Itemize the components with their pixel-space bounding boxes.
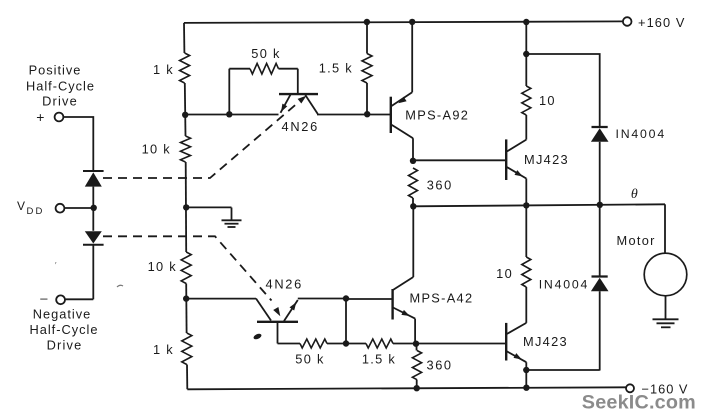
label 50 k upper <box>251 46 280 61</box>
label MPS-A42 <box>410 291 474 306</box>
label 360 lower <box>427 357 453 372</box>
label Negative <box>33 306 92 321</box>
wire 360 lower bottom <box>416 380 418 389</box>
node junction 1.5k bottom <box>364 111 370 117</box>
dashed light path upper (LED D1 to U1) <box>103 96 307 178</box>
node junction Q1 emitter top rail <box>409 19 415 25</box>
label 4N26 upper <box>282 119 319 134</box>
wire left column bottom <box>186 365 188 390</box>
svg-text:+160 V: +160 V <box>638 15 686 30</box>
label IN4004 lower <box>539 277 589 291</box>
wire base rail upper <box>185 114 278 116</box>
terminal plus input <box>55 113 64 122</box>
svg-text:Motor: Motor <box>617 233 656 248</box>
LED D2 optocoupler (lower) <box>83 231 104 299</box>
svg-text:50 k: 50 k <box>251 46 280 61</box>
node junction Q3 emitter theta <box>523 202 529 208</box>
svg-text:IN4004: IN4004 <box>539 277 589 291</box>
wire Q2 base <box>346 298 393 300</box>
LED D1 optocoupler (upper) <box>83 171 104 231</box>
label MJ423 upper <box>524 152 569 167</box>
wire U2 base stub <box>277 322 279 344</box>
wire Q4 emitter to D4 <box>526 369 599 371</box>
resistor R 1.5k lower <box>346 339 415 348</box>
label 1.5 k upper <box>319 60 353 75</box>
wire 1.5k column bottom <box>366 83 368 115</box>
svg-text:10: 10 <box>539 93 556 108</box>
svg-text:Positive: Positive <box>29 63 82 78</box>
wire left column seg4 <box>185 284 187 334</box>
wire 360 to theta node <box>412 198 414 206</box>
diode D3 1N4004 (upper) <box>591 127 609 205</box>
wire motor to ground <box>665 296 667 319</box>
wire branch to D3 <box>526 54 599 126</box>
svg-text:360: 360 <box>427 357 453 372</box>
label 4N26 lower <box>266 276 303 291</box>
resistor R 1.5k upper <box>362 54 372 84</box>
resistor R 1k upper <box>180 53 190 83</box>
label Drive lower <box>47 337 83 352</box>
svg-text:V: V <box>17 199 25 213</box>
wire plus input <box>64 117 94 171</box>
svg-text:Drive: Drive <box>42 94 78 109</box>
svg-text:–: – <box>40 291 49 306</box>
wire right column to top rail <box>525 22 527 54</box>
label 10 upper <box>539 93 556 108</box>
transistor Q1 MPS-A92 <box>391 22 413 161</box>
artifact mark 1 <box>253 333 263 341</box>
node junction D3 theta <box>597 202 603 208</box>
wire Q1 collector to Q3 base <box>413 159 506 161</box>
wire bottom -160V rail <box>187 387 626 389</box>
wire U1 collector to Q1 base <box>317 114 391 116</box>
label theta <box>631 187 639 202</box>
terminal -160 V <box>626 381 688 396</box>
wire lower base rail left <box>186 298 256 300</box>
wire left column seg3 <box>185 162 188 252</box>
svg-text:10: 10 <box>496 266 513 281</box>
svg-text:4N26: 4N26 <box>282 119 319 134</box>
node junction theta-360 <box>410 203 416 209</box>
label IN4004 upper <box>616 127 666 141</box>
svg-text:MPS-A42: MPS-A42 <box>410 291 474 306</box>
wire 1.5k column top <box>366 22 368 54</box>
label 1 k lower <box>153 342 174 357</box>
node junction Q1 collector <box>410 158 416 164</box>
svg-text:10 k: 10 k <box>148 259 177 274</box>
node junction U2-Q2 base <box>343 295 349 301</box>
label MPS-A92 <box>405 108 469 123</box>
svg-text:MJ423: MJ423 <box>524 152 569 167</box>
transistor Q3 MJ423 (upper) <box>506 115 526 205</box>
wire 50k left stub <box>228 69 230 115</box>
node junction left-lower <box>183 295 189 301</box>
svg-text:′: ′ <box>55 261 58 270</box>
svg-text:4N26: 4N26 <box>266 276 303 291</box>
node junction 50k-left <box>226 111 232 117</box>
wire VDD node to ground <box>186 206 231 208</box>
svg-text:+: + <box>36 109 45 125</box>
svg-text:360: 360 <box>427 177 453 192</box>
resistor R 50k lower <box>278 339 347 348</box>
wire theta to Q2 collector <box>393 206 413 290</box>
dashed light path lower (LED D2 to U2) <box>103 236 280 316</box>
label - polarity <box>40 291 49 306</box>
label 10 k lower <box>148 259 177 274</box>
node junction diode branch upper <box>523 51 529 57</box>
svg-text:1.5 k: 1.5 k <box>362 352 396 367</box>
wire left column seg2 <box>184 83 187 136</box>
wire top +160V rail <box>184 21 623 23</box>
svg-text:Half-Cycle: Half-Cycle <box>26 79 95 94</box>
watermark SeekIC.com <box>582 392 696 414</box>
label Motor <box>617 233 656 248</box>
node junction VDD <box>91 205 97 211</box>
label MJ423 lower <box>523 334 568 349</box>
label Half-Cycle upper <box>26 79 95 94</box>
wire 10 to +rail branch <box>525 54 527 86</box>
svg-text:DD: DD <box>27 206 45 217</box>
node junction Q4 emitter-D4 <box>523 367 529 373</box>
resistor R 360 lower <box>412 351 421 380</box>
terminal minus input <box>56 295 65 304</box>
resistor R 10 lower <box>522 257 531 287</box>
diode D4 1N4004 (lower) <box>591 205 609 371</box>
svg-text:50 k: 50 k <box>295 352 324 367</box>
wire minus input <box>65 298 93 300</box>
wire VDD to column <box>65 207 94 209</box>
node junction Q2 emitter <box>413 341 419 347</box>
resistor R 360 upper <box>409 168 418 198</box>
motor M <box>644 253 687 296</box>
wire left column top <box>183 23 185 53</box>
opto-transistor U2 4N26 (lower) <box>256 299 298 322</box>
ground (signal common) <box>222 208 242 228</box>
label 10 k upper <box>142 142 171 157</box>
svg-text:MPS-A92: MPS-A92 <box>405 108 469 123</box>
wire U2 emitter to Q2 base <box>298 298 346 300</box>
wire theta to motor <box>664 204 666 253</box>
label 360 upper <box>427 177 453 192</box>
svg-text:IN4004: IN4004 <box>616 127 666 141</box>
artifact mark 3 <box>117 285 123 287</box>
node junction 1.5k top rail <box>364 19 370 25</box>
svg-text:1 k: 1 k <box>153 342 174 357</box>
svg-text:θ: θ <box>631 187 639 202</box>
wire base-emitter tie <box>345 299 347 344</box>
artifact mark 2 <box>55 261 58 270</box>
label 1 k upper <box>153 62 174 77</box>
wire Q2 emitter to Q4 base <box>415 343 506 345</box>
node junction left-base <box>182 112 188 118</box>
label + polarity <box>36 109 45 125</box>
label 50 k lower <box>295 352 324 367</box>
wire 360 lower top <box>415 344 417 351</box>
label Drive upper <box>42 94 78 109</box>
label VDD <box>17 199 45 217</box>
resistor R 1k lower <box>182 333 192 365</box>
node junction right col top rail <box>523 19 529 25</box>
label 10 lower <box>496 266 513 281</box>
transistor Q4 MJ423 (lower) <box>506 287 526 388</box>
svg-text:Drive: Drive <box>47 337 83 352</box>
node junction 50k-1.5k lower <box>343 340 349 346</box>
svg-text:MJ423: MJ423 <box>523 334 568 349</box>
terminal +160 V <box>623 15 686 30</box>
node junction 360 bottom rail <box>414 385 420 391</box>
svg-text:10 k: 10 k <box>142 142 171 157</box>
svg-text:1.5 k: 1.5 k <box>319 60 353 75</box>
svg-text:Negative: Negative <box>33 306 92 321</box>
ground (motor) <box>653 319 679 327</box>
node junction left-vdd <box>183 204 189 210</box>
resistor R 10 upper <box>522 86 531 115</box>
svg-text:SeekIC.com: SeekIC.com <box>582 392 696 414</box>
wire 50k to base of U1 <box>297 69 299 94</box>
transistor Q2 MPS-A42 <box>393 289 416 344</box>
svg-text:Half-Cycle: Half-Cycle <box>29 322 98 337</box>
resistor R 10k upper <box>181 136 191 162</box>
label Positive <box>29 63 82 78</box>
svg-text:1 k: 1 k <box>153 62 174 77</box>
label Half-Cycle lower <box>29 322 98 337</box>
label 1.5 k lower <box>362 352 396 367</box>
wire 10 lower to theta <box>525 205 527 257</box>
resistor R 50k upper <box>229 63 297 74</box>
node junction Q4 emitter rail <box>523 385 529 391</box>
terminal VDD <box>56 204 65 213</box>
resistor R 10k lower <box>181 252 191 284</box>
opto-transistor U1 4N26 (upper) <box>279 94 318 114</box>
wire theta output node <box>413 204 665 206</box>
